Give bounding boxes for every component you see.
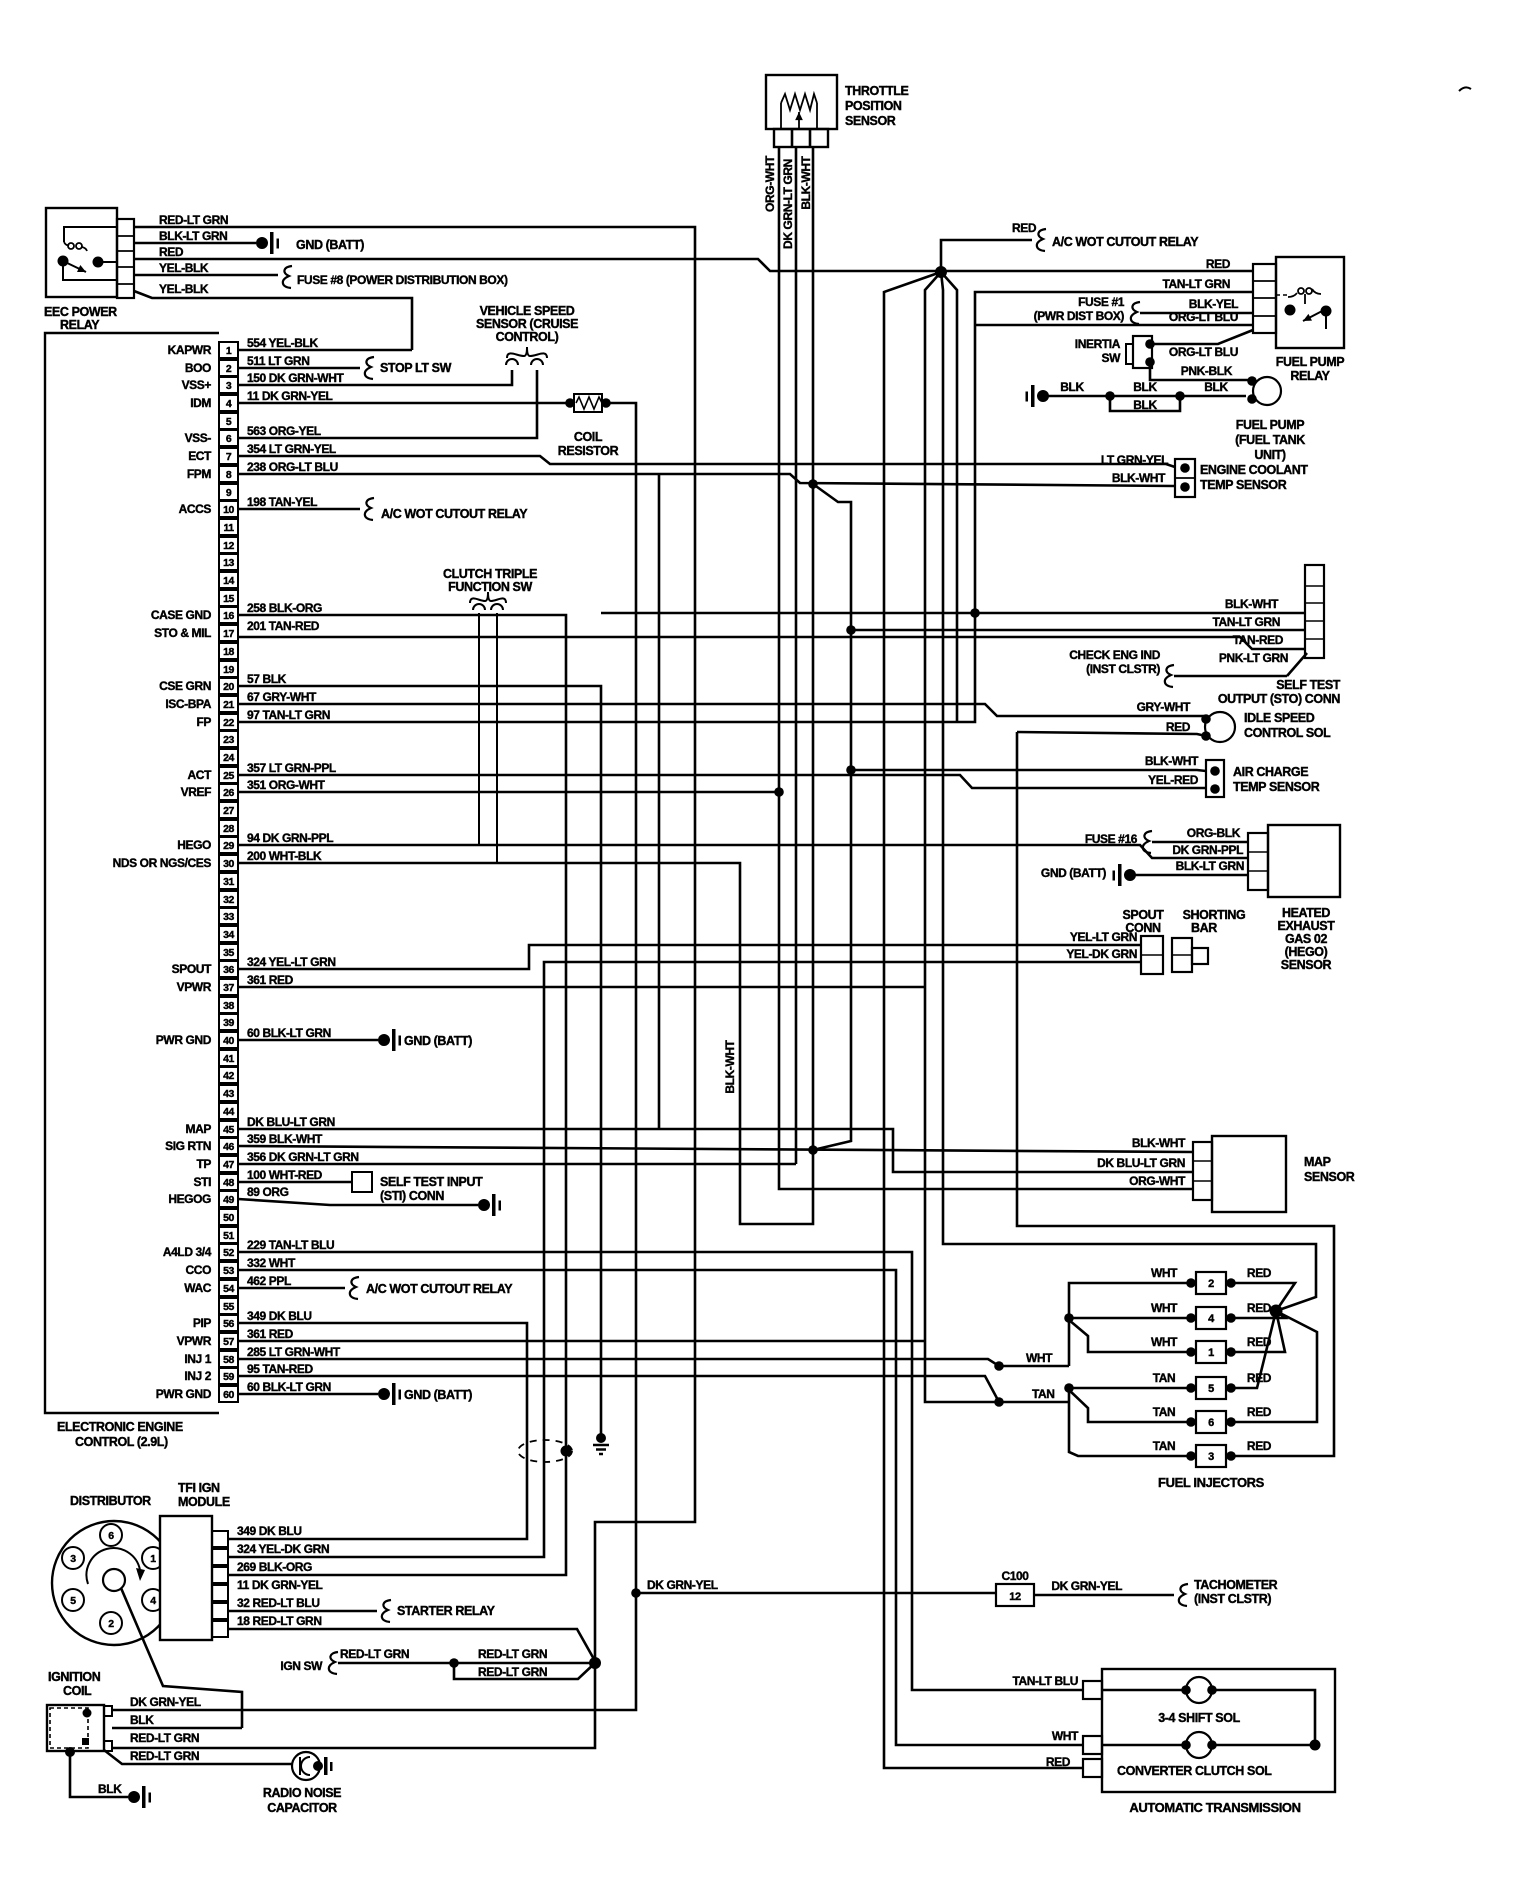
svg-text:KAPWR: KAPWR (168, 343, 212, 357)
svg-text:BLK-WHT: BLK-WHT (1225, 597, 1279, 611)
svg-text:MAP: MAP (186, 1122, 212, 1136)
EEC connector pin 30 (113, 855, 238, 871)
svg-text:GAS 02: GAS 02 (1285, 932, 1328, 946)
svg-text:RELAY: RELAY (60, 318, 100, 332)
svg-text:285 LT GRN-WHT: 285 LT GRN-WHT (247, 1345, 341, 1359)
svg-text:27: 27 (223, 805, 234, 817)
EEC connector pin 3 (182, 377, 238, 393)
svg-text:60: 60 (223, 1389, 234, 1401)
svg-text:3: 3 (1208, 1451, 1214, 1463)
svg-text:YEL-BLK: YEL-BLK (159, 282, 209, 296)
svg-text:A/C WOT CUTOUT RELAY: A/C WOT CUTOUT RELAY (366, 1282, 513, 1296)
svg-text:RED-LT GRN: RED-LT GRN (478, 1665, 547, 1679)
svg-text:354 LT GRN-YEL: 354 LT GRN-YEL (247, 442, 336, 456)
svg-text:A/C WOT CUTOUT RELAY: A/C WOT CUTOUT RELAY (381, 507, 528, 521)
wire pin45 DK BLU-LT GRN to MAP sensor (238, 1129, 1193, 1172)
EEC connector pin 34 (219, 926, 238, 942)
distributor rotor lead to coil (121, 1588, 242, 1728)
svg-text:5: 5 (226, 416, 232, 428)
svg-text:563 ORG-YEL: 563 ORG-YEL (247, 424, 321, 438)
wire pin30 200 WHT-BLK to clutch switch / MAP BLK-WHT (238, 863, 818, 1224)
svg-text:50: 50 (223, 1212, 234, 1224)
svg-text:49: 49 (223, 1194, 234, 1206)
wire pin20 57 BLK to chassis ground (238, 686, 609, 1454)
svg-text:25: 25 (223, 770, 234, 782)
svg-text:59: 59 (223, 1371, 234, 1383)
wire pin17 201 TAN-RED to STO connector (238, 637, 1305, 649)
svg-text:52: 52 (223, 1247, 234, 1259)
TFI connector cell at y=1575 (212, 1567, 228, 1583)
svg-text:VSS+: VSS+ (182, 378, 212, 392)
svg-text:A4LD 3/4: A4LD 3/4 (163, 1245, 212, 1259)
wire pin57 361 RED (238, 1340, 925, 1343)
EEC connector pin 55 (219, 1298, 238, 1314)
wire VPWR branch to transmission RED (884, 272, 1083, 1768)
wire branch vertical from FPM wire to MAP circuit (658, 474, 661, 1128)
svg-text:201 TAN-RED: 201 TAN-RED (247, 619, 320, 633)
svg-text:13: 13 (223, 557, 234, 569)
EEC connector pin 49 (168, 1191, 238, 1207)
svg-text:349 DK BLU: 349 DK BLU (237, 1524, 302, 1538)
svg-text:15: 15 (223, 593, 234, 605)
svg-text:18: 18 (223, 646, 234, 658)
svg-text:SW: SW (1101, 351, 1121, 365)
svg-text:44: 44 (223, 1106, 234, 1118)
radio noise capacitor (263, 1752, 341, 1815)
wire pin58 285 LT GRN-WHT to injectors WHT feed (238, 1351, 1069, 1371)
svg-text:CONTROL (2.9L): CONTROL (2.9L) (75, 1435, 168, 1449)
injector TAN bus (1064, 1383, 1191, 1456)
EEC connector pin 12 (219, 537, 238, 553)
svg-text:TFI IGN: TFI IGN (178, 1481, 220, 1495)
wire pin7 354 LT GRN-YEL to ECT sensor (238, 456, 1175, 467)
EEC connector pin 8 (187, 466, 238, 482)
wire VPWR branch vertical (941, 272, 957, 722)
svg-text:324 YEL-LT GRN: 324 YEL-LT GRN (247, 955, 336, 969)
EEC connector pin 4 (190, 395, 238, 411)
fuel injector 1 (1151, 1335, 1272, 1363)
svg-text:23: 23 (223, 734, 234, 746)
svg-text:CCO: CCO (186, 1263, 212, 1277)
svg-text:17: 17 (223, 628, 234, 640)
svg-text:7: 7 (226, 451, 232, 463)
EEC connector pin 41 (219, 1050, 238, 1066)
EEC connector pin 32 (219, 891, 238, 907)
wire BLK fuel pump ground (1043, 380, 1246, 412)
svg-text:IDLE SPEED: IDLE SPEED (1244, 711, 1315, 725)
wire RED-LT GRN from coil to radio noise capacitor (104, 1749, 292, 1764)
svg-text:5: 5 (1208, 1383, 1214, 1395)
svg-text:2: 2 (226, 363, 232, 375)
svg-text:10: 10 (223, 504, 234, 516)
svg-text:DK BLU-LT GRN: DK BLU-LT GRN (247, 1115, 335, 1129)
wire ORG-WHT from TPS (VREF) (763, 147, 779, 795)
svg-text:41: 41 (223, 1053, 234, 1065)
EEC connector pin 1 (168, 342, 238, 358)
wire DK GRN-YEL to tachometer (1034, 1578, 1278, 1606)
svg-text:ECT: ECT (188, 449, 212, 463)
EEC connector pin 2 (185, 360, 238, 376)
TFI connector cell at y=1539 (212, 1531, 228, 1547)
EEC connector pin 21 (165, 696, 238, 712)
3-4 shift solenoid (1012, 1674, 1240, 1725)
EEC connector pin 45 (186, 1121, 238, 1137)
svg-text:5: 5 (70, 1595, 76, 1607)
svg-text:554 YEL-BLK: 554 YEL-BLK (247, 336, 318, 350)
ground GND (BATT) for relay (256, 232, 364, 254)
svg-text:CONVERTER CLUTCH SOL: CONVERTER CLUTCH SOL (1117, 1764, 1272, 1778)
svg-text:SENSOR: SENSOR (1281, 958, 1332, 972)
wire BLK from coil to ground (65, 1747, 151, 1808)
svg-text:DK GRN-YEL: DK GRN-YEL (647, 1578, 718, 1592)
svg-text:32: 32 (223, 894, 234, 906)
svg-text:9: 9 (226, 487, 232, 499)
EEC connector pin 9 (219, 484, 238, 500)
svg-text:VPWR: VPWR (177, 980, 212, 994)
EEC connector pin 52 (163, 1244, 238, 1260)
svg-text:20: 20 (223, 681, 234, 693)
EEC connector pin 56 (193, 1315, 238, 1331)
EEC connector pin 6 (185, 430, 238, 446)
fuel injector 6 (1153, 1405, 1272, 1433)
wire 32 RED-LT BLU to starter relay (228, 1600, 496, 1622)
svg-text:11 DK GRN-YEL: 11 DK GRN-YEL (247, 389, 333, 403)
svg-text:RED: RED (1166, 720, 1191, 734)
EEC connector pin 26 (181, 784, 238, 800)
svg-text:GND (BATT): GND (BATT) (404, 1034, 472, 1048)
svg-text:57: 57 (223, 1336, 234, 1348)
svg-text:GND (BATT): GND (BATT) (1041, 866, 1106, 880)
wire pin10 198 TAN-YEL to A/C WOT cutout relay (238, 498, 528, 521)
svg-text:FUSE #16: FUSE #16 (1085, 832, 1138, 846)
svg-text:31: 31 (223, 876, 234, 888)
wire BLK-WHT from TPS (SIG RTN) (799, 147, 813, 1150)
transmission solenoid return wire (1212, 1690, 1321, 1751)
svg-text:TAN: TAN (1153, 1405, 1176, 1419)
self test output connector (1218, 565, 1341, 706)
MAP sensor (1097, 1136, 1355, 1212)
svg-text:11 DK GRN-YEL: 11 DK GRN-YEL (237, 1578, 323, 1592)
svg-text:RED: RED (1247, 1266, 1272, 1280)
svg-text:16: 16 (223, 610, 234, 622)
artifact mark (1459, 87, 1471, 91)
svg-text:YEL-RED: YEL-RED (1148, 773, 1199, 787)
svg-text:TACHOMETER: TACHOMETER (1194, 1578, 1278, 1592)
svg-text:30: 30 (223, 858, 234, 870)
wire pin46 359 BLK-WHT to MAP sensor (238, 1146, 1193, 1152)
wire pin49 89 ORG to ground (238, 1194, 501, 1216)
svg-text:BAR: BAR (1191, 921, 1217, 935)
electronic engine control module outline (45, 333, 219, 1449)
EEC connector pin 51 (219, 1227, 238, 1243)
svg-text:8: 8 (226, 469, 232, 481)
EEC connector pin 20 (159, 678, 238, 694)
svg-text:32 RED-LT BLU: 32 RED-LT BLU (237, 1596, 320, 1610)
svg-text:ELECTRONIC ENGINE: ELECTRONIC ENGINE (57, 1420, 183, 1434)
svg-text:47: 47 (223, 1159, 234, 1171)
svg-text:CHECK ENG IND: CHECK ENG IND (1069, 648, 1161, 662)
svg-text:RED: RED (1247, 1301, 1272, 1315)
svg-text:WAC: WAC (184, 1281, 212, 1295)
svg-text:WHT: WHT (1151, 1301, 1178, 1315)
svg-text:STO & MIL: STO & MIL (154, 626, 211, 640)
shielding ellipse on SPOUT wires (518, 1440, 572, 1462)
injector RED node (1231, 1283, 1317, 1422)
wire ORG-BLK from fuse #16 to HEGO (1085, 826, 1248, 853)
svg-text:STARTER RELAY: STARTER RELAY (397, 1604, 496, 1618)
svg-text:51: 51 (223, 1230, 234, 1242)
svg-text:WHT: WHT (1151, 1335, 1178, 1349)
wire PNK-LT GRN from check engine indicator (1069, 648, 1307, 687)
TFI connector cell at y=1557 (212, 1549, 228, 1565)
svg-text:89 ORG: 89 ORG (247, 1185, 289, 1199)
svg-text:DK GRN-LT GRN: DK GRN-LT GRN (781, 159, 795, 249)
svg-text:18 RED-LT GRN: 18 RED-LT GRN (237, 1614, 322, 1628)
svg-text:229 TAN-LT BLU: 229 TAN-LT BLU (247, 1238, 334, 1252)
EEC connector pin 36 (172, 961, 238, 977)
EEC connector pin 28 (219, 820, 238, 836)
svg-text:48: 48 (223, 1177, 234, 1189)
wire DK GRN-YEL from coil resistor to TFI/ignition coil (112, 403, 636, 1710)
svg-text:PIP: PIP (193, 1316, 212, 1330)
svg-text:BLK-WHT: BLK-WHT (1145, 754, 1199, 768)
svg-text:RED-LT GRN: RED-LT GRN (159, 213, 228, 227)
EEC connector pin 16 (151, 607, 238, 623)
svg-text:53: 53 (223, 1265, 234, 1277)
svg-text:VSS-: VSS- (185, 431, 212, 445)
svg-text:FUEL PUMP: FUEL PUMP (1236, 418, 1304, 432)
svg-text:100 WHT-RED: 100 WHT-RED (247, 1168, 323, 1182)
svg-text:A/C WOT CUTOUT RELAY: A/C WOT CUTOUT RELAY (1052, 235, 1199, 249)
svg-text:35: 35 (223, 947, 234, 959)
svg-text:PWR GND: PWR GND (156, 1033, 212, 1047)
svg-text:6: 6 (108, 1530, 114, 1542)
svg-text:56: 56 (223, 1318, 234, 1330)
svg-text:ORG-WHT: ORG-WHT (1129, 1174, 1186, 1188)
svg-text:19: 19 (223, 664, 234, 676)
svg-text:40: 40 (223, 1035, 234, 1047)
wire pin16 258 BLK-ORG to TFI (228, 615, 566, 1575)
svg-text:COIL: COIL (574, 430, 603, 444)
svg-text:SENSOR: SENSOR (845, 114, 896, 128)
svg-text:MAP: MAP (1304, 1155, 1331, 1169)
svg-text:(HEGO): (HEGO) (1285, 945, 1328, 959)
svg-text:1: 1 (1208, 1347, 1214, 1359)
wire RED from relay to fuel pump relay (134, 245, 1253, 271)
wire ORG-LT BLU from inertia switch to relay (1150, 330, 1253, 359)
wire DK GRN-YEL junction to tachometer (631, 1578, 996, 1598)
fuel injector 3 (1153, 1439, 1272, 1467)
EEC connector pin 54 (184, 1280, 238, 1296)
svg-text:ISC-BPA: ISC-BPA (165, 697, 211, 711)
wire pin3 150 DK GRN-WHT to VSS (238, 370, 512, 385)
wire BLK-WHT signal return bus (813, 484, 851, 1150)
wire pin54 462 PPL to A/C WOT cutout relay (238, 1277, 513, 1299)
shorting bar (1172, 908, 1245, 972)
svg-text:BOO: BOO (185, 361, 211, 375)
TFI ignition module (160, 1481, 230, 1640)
svg-text:238 ORG-LT BLU: 238 ORG-LT BLU (247, 460, 338, 474)
svg-text:HEGO: HEGO (177, 838, 211, 852)
spout connector (1066, 908, 1164, 974)
svg-text:22: 22 (223, 717, 234, 729)
svg-text:3: 3 (70, 1553, 76, 1565)
heated exhaust gas oxygen sensor HEGO (1248, 825, 1340, 972)
svg-text:BLK-WHT: BLK-WHT (799, 155, 813, 209)
svg-text:RED: RED (1046, 1755, 1071, 1769)
svg-text:(STI) CONN: (STI) CONN (380, 1189, 444, 1203)
wire pin8 238 ORG-LT BLU / BLK-WHT to ECT sensor (238, 474, 1175, 489)
svg-text:14: 14 (223, 575, 234, 587)
EEC connector pin 53 (186, 1262, 238, 1278)
svg-text:CSE GRN: CSE GRN (159, 679, 211, 693)
svg-text:42: 42 (223, 1070, 234, 1082)
svg-text:1: 1 (150, 1553, 156, 1565)
EEC connector pin 31 (219, 873, 238, 889)
wire BLK-WHT to STO connector (601, 597, 1305, 618)
svg-text:YEL-DK GRN: YEL-DK GRN (1066, 947, 1137, 961)
svg-text:IGNITION: IGNITION (48, 1670, 101, 1684)
EEC connector pin 18 (219, 643, 238, 659)
svg-text:TEMP SENSOR: TEMP SENSOR (1200, 478, 1287, 492)
wire YEL-BLK to fuse #8 (134, 261, 508, 288)
svg-text:SENSOR: SENSOR (1304, 1170, 1355, 1184)
EEC connector pin 48 (194, 1174, 238, 1190)
svg-text:DK GRN-YEL: DK GRN-YEL (130, 1695, 201, 1709)
svg-text:TAN: TAN (1153, 1439, 1176, 1453)
svg-text:200 WHT-BLK: 200 WHT-BLK (247, 849, 322, 863)
svg-text:BLK: BLK (1133, 380, 1157, 394)
svg-text:BLK: BLK (1133, 398, 1157, 412)
svg-text:6: 6 (1208, 1417, 1214, 1429)
svg-text:FPM: FPM (187, 467, 212, 481)
svg-text:43: 43 (223, 1088, 234, 1100)
ground for fuel pump BLK (1037, 390, 1049, 402)
TFI connector cell at y=1629 (212, 1621, 228, 1637)
svg-text:VREF: VREF (181, 785, 211, 799)
svg-text:SPOUT: SPOUT (1122, 908, 1164, 922)
EEC connector pin 5 (219, 413, 238, 429)
svg-text:37: 37 (223, 982, 234, 994)
svg-text:357 LT GRN-PPL: 357 LT GRN-PPL (247, 761, 336, 775)
svg-text:BLK: BLK (1204, 380, 1228, 394)
svg-text:3-4 SHIFT SOL: 3-4 SHIFT SOL (1158, 1711, 1240, 1725)
svg-text:4: 4 (150, 1595, 156, 1607)
EEC connector pin 50 (219, 1209, 238, 1225)
svg-text:WHT: WHT (1052, 1729, 1079, 1743)
svg-text:STOP LT SW: STOP LT SW (380, 361, 452, 375)
svg-text:SIG RTN: SIG RTN (165, 1139, 211, 1153)
svg-text:BLK-YEL: BLK-YEL (1189, 297, 1238, 311)
svg-text:RADIO NOISE: RADIO NOISE (263, 1786, 341, 1800)
svg-text:RED: RED (159, 245, 184, 259)
svg-text:AUTOMATIC TRANSMISSION: AUTOMATIC TRANSMISSION (1129, 1800, 1300, 1815)
svg-text:94 DK GRN-PPL: 94 DK GRN-PPL (247, 831, 333, 845)
wire pin29 94 DK GRN-PPL to HEGO sensor (238, 845, 1248, 858)
EEC connector pin 40 (156, 1032, 238, 1048)
svg-text:THROTTLE: THROTTLE (845, 84, 909, 98)
svg-text:CLUTCH TRIPLE: CLUTCH TRIPLE (443, 567, 537, 581)
svg-text:POSITION: POSITION (845, 99, 902, 113)
svg-text:SELF TEST: SELF TEST (1276, 678, 1341, 692)
svg-text:TAN-RED: TAN-RED (1233, 633, 1284, 647)
wire pin22 97 TAN-LT GRN to fuel pump relay (238, 292, 1253, 722)
svg-text:TAN-LT GRN: TAN-LT GRN (1212, 615, 1280, 629)
wire pin52 229 TAN-LT BLU to 3-4 shift solenoid (238, 1252, 1083, 1690)
svg-text:11: 11 (223, 522, 234, 534)
svg-text:TAN-LT BLU: TAN-LT BLU (1012, 1674, 1078, 1688)
idle speed control solenoid (1137, 700, 1332, 742)
svg-text:361 RED: 361 RED (247, 973, 294, 987)
injector WHT bus (1064, 1283, 1191, 1366)
svg-text:28: 28 (223, 823, 234, 835)
automatic transmission (1102, 1669, 1335, 1815)
svg-text:39: 39 (223, 1017, 234, 1029)
svg-text:36: 36 (223, 964, 234, 976)
TFI connector cell at y=1593 (212, 1585, 228, 1601)
svg-text:RED: RED (1247, 1439, 1272, 1453)
svg-text:HEATED: HEATED (1282, 906, 1330, 920)
vehicle speed sensor symbol (476, 304, 578, 365)
EEC connector pin 38 (219, 997, 238, 1013)
wire pin4 11 DK GRN-YEL to coil resistor (238, 402, 566, 405)
svg-text:(FUEL TANK: (FUEL TANK (1235, 433, 1305, 447)
svg-text:24: 24 (223, 752, 234, 764)
svg-text:VEHICLE SPEED: VEHICLE SPEED (480, 304, 575, 318)
svg-text:MODULE: MODULE (178, 1495, 230, 1509)
EEC power relay connector (117, 219, 134, 298)
ignition switch wires RED-LT GRN (280, 1647, 601, 1679)
engine coolant temp sensor (1101, 453, 1308, 497)
wire pin25 357 LT GRN-PPL to air charge temp sensor (238, 775, 1206, 788)
EEC connector pin 33 (219, 908, 238, 924)
svg-text:BLK-LT GRN: BLK-LT GRN (159, 229, 227, 243)
svg-text:DK BLU-LT GRN: DK BLU-LT GRN (1097, 1156, 1185, 1170)
svg-text:ORG-WHT: ORG-WHT (763, 155, 777, 212)
wire TAN-LT GRN to STO connector (846, 615, 1305, 635)
svg-text:ACCS: ACCS (179, 502, 212, 516)
fuel injector 5 (1153, 1371, 1272, 1399)
svg-text:356 DK GRN-LT GRN: 356 DK GRN-LT GRN (247, 1150, 359, 1164)
svg-text:45: 45 (223, 1124, 234, 1136)
svg-text:269 BLK-ORG: 269 BLK-ORG (237, 1560, 312, 1574)
EEC connector pin 15 (219, 590, 238, 606)
svg-text:SELF TEST INPUT: SELF TEST INPUT (380, 1175, 483, 1189)
svg-text:C100: C100 (1001, 1569, 1029, 1583)
EEC connector pin 25 (188, 767, 238, 783)
svg-text:BLK-WHT: BLK-WHT (1132, 1136, 1186, 1150)
svg-text:LT GRN-YEL: LT GRN-YEL (1101, 453, 1168, 467)
transmission RED input (1046, 1755, 1102, 1777)
svg-text:COIL: COIL (63, 1684, 92, 1698)
fuel pump relay (1276, 257, 1344, 383)
svg-text:349 DK BLU: 349 DK BLU (247, 1309, 312, 1323)
svg-text:(PWR DIST BOX): (PWR DIST BOX) (1034, 309, 1125, 323)
svg-text:EEC POWER: EEC POWER (44, 305, 117, 319)
svg-text:60 BLK-LT GRN: 60 BLK-LT GRN (247, 1380, 331, 1394)
wire pin1 554 YEL-BLK (238, 349, 412, 352)
svg-text:CONTROL SOL: CONTROL SOL (1244, 726, 1331, 740)
svg-text:IGN SW: IGN SW (280, 1659, 323, 1673)
svg-text:511 LT GRN: 511 LT GRN (247, 354, 309, 368)
EEC connector pin 39 (219, 1014, 238, 1030)
svg-text:SHORTING: SHORTING (1183, 908, 1246, 922)
svg-text:RED-LT GRN: RED-LT GRN (130, 1749, 199, 1763)
TFI connector cell at y=1611 (212, 1603, 228, 1619)
svg-text:ORG-BLK: ORG-BLK (1187, 826, 1241, 840)
svg-text:PNK-LT GRN: PNK-LT GRN (1219, 651, 1288, 665)
svg-text:GRY-WHT: GRY-WHT (1137, 700, 1191, 714)
